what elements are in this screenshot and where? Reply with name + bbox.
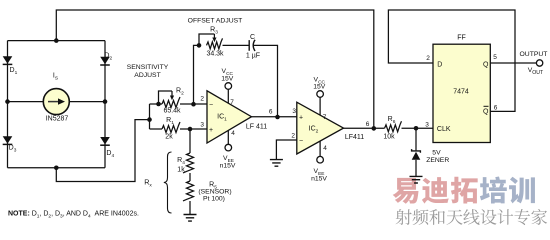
- svg-text:ADJUST: ADJUST: [134, 72, 160, 79]
- capacitor C 1uF: [249, 40, 255, 51]
- wire input vertical joining R2 and R1 rows: [149, 104, 151, 129]
- wire bridge bottom to input node: [56, 120, 149, 182]
- IC2 pin4 VEE: [319, 141, 321, 156]
- node IC1 out: [275, 115, 280, 120]
- node zener junction: [414, 126, 419, 131]
- node wiper tap: [156, 102, 161, 107]
- svg-text:65.4k: 65.4k: [163, 108, 181, 115]
- R2 potentiometer wiper: [159, 91, 173, 104]
- node bridge top: [54, 38, 59, 43]
- ground below zener: [410, 176, 423, 183]
- current source IS circle: [43, 89, 69, 115]
- watermark small text 射频和天线设计专家: [396, 209, 412, 225]
- svg-text:1k: 1k: [177, 167, 185, 174]
- diode D3: [3, 136, 13, 144]
- svg-text:+: +: [209, 127, 213, 134]
- diode D4: [100, 137, 110, 145]
- svg-text:Pt 100): Pt 100): [203, 196, 225, 203]
- svg-text:SENSITIVITY: SENSITIVITY: [127, 64, 169, 71]
- svg-text:3: 3: [292, 108, 296, 115]
- wire IC2 output row to FF CLK: [344, 127, 385, 129]
- output terminal circle: [536, 60, 542, 66]
- IC1 pin4 VEE: [227, 130, 229, 144]
- svg-text:n15V: n15V: [311, 176, 327, 183]
- svg-text:FF: FF: [457, 34, 466, 41]
- svg-text:D: D: [437, 62, 442, 69]
- svg-text:34.3k: 34.3k: [206, 51, 224, 58]
- diode D2: [100, 57, 110, 65]
- svg-text:5: 5: [493, 54, 497, 61]
- watermark big text 易迪拓培训: [393, 178, 419, 204]
- svg-text:+: +: [299, 114, 303, 121]
- node offset row left: [197, 43, 202, 48]
- svg-text:(SENSOR): (SENSOR): [198, 189, 231, 196]
- node pin3/R4: [188, 127, 193, 132]
- resistors R4 R5 sensor chain: [189, 129, 191, 153]
- zener diode 5V: [415, 128, 417, 150]
- ground below R5: [184, 215, 197, 222]
- node bridge bottom: [54, 166, 59, 171]
- R3 potentiometer wiper: [199, 34, 214, 45]
- svg-text:3: 3: [425, 121, 429, 128]
- svg-text:C: C: [250, 34, 255, 41]
- svg-text:IN5287: IN5287: [46, 116, 69, 123]
- diode D1: [3, 56, 13, 64]
- IC2 pin7 VCC: [319, 97, 321, 115]
- svg-text:OUTPUT: OUTPUT: [520, 51, 548, 58]
- svg-text:6: 6: [366, 121, 370, 128]
- svg-text:2k: 2k: [165, 134, 173, 141]
- node input: [147, 117, 152, 122]
- resistor R1 2k row (pin 3): [150, 128, 163, 130]
- svg-text:5V: 5V: [432, 150, 441, 157]
- op-amp IC1 LF411: [207, 91, 252, 143]
- resistor R2 65.4k row (pin 2): [150, 103, 163, 105]
- node top-rail junction: [372, 126, 377, 131]
- svg-text:15V: 15V: [313, 84, 326, 91]
- node bridge mid-left: [5, 99, 10, 104]
- svg-text:−: −: [209, 102, 213, 109]
- current source arrow: [48, 101, 59, 103]
- svg-text:7: 7: [323, 114, 327, 121]
- IC2 pin2 ground wire: [276, 140, 296, 160]
- svg-text:Q: Q: [483, 62, 489, 69]
- svg-text:CLK: CLK: [437, 126, 451, 133]
- node pin2/feedback: [191, 102, 196, 107]
- svg-text:3: 3: [200, 121, 204, 128]
- feedback vertical pin2 to offset row: [194, 45, 200, 104]
- ground IC2 pin2: [270, 160, 283, 167]
- svg-text:4: 4: [231, 130, 235, 137]
- wire top rail from bridge to IC2 output node: [56, 10, 374, 128]
- svg-text:4: 4: [323, 145, 327, 152]
- svg-text:7: 7: [230, 99, 234, 106]
- svg-text:10k: 10k: [383, 133, 395, 140]
- wire bridge rectangle: [8, 41, 106, 168]
- IC1 pin7 VCC: [227, 89, 229, 103]
- wire Q to output terminal: [490, 62, 536, 64]
- svg-text:Q: Q: [483, 109, 489, 116]
- svg-text:LF411: LF411: [345, 134, 364, 141]
- svg-text:15V: 15V: [221, 76, 234, 83]
- flip-flop 7474 box: [433, 44, 490, 142]
- svg-text:6: 6: [494, 104, 498, 111]
- wire IC1 output to IC2: [252, 116, 297, 118]
- svg-text:LF 411: LF 411: [246, 124, 267, 131]
- svg-text:−: −: [299, 138, 303, 145]
- svg-text:7474: 7474: [453, 89, 469, 96]
- resistor R3 34.3k (offset pot): [207, 38, 223, 49]
- svg-text:n15V: n15V: [220, 163, 236, 170]
- svg-text:ZENER: ZENER: [426, 157, 449, 164]
- svg-text:6: 6: [269, 108, 273, 115]
- svg-text:1 µF: 1 µF: [246, 53, 260, 60]
- wire FF feedback Qbar to D: [388, 10, 515, 111]
- op-amp IC2 LF411: [297, 102, 344, 154]
- svg-text:2: 2: [426, 55, 430, 62]
- svg-text:2: 2: [291, 132, 295, 139]
- node bridge mid-right: [103, 99, 108, 104]
- svg-text:2: 2: [200, 95, 204, 102]
- svg-text:OFFSET ADJUST: OFFSET ADJUST: [188, 18, 243, 25]
- brace Rx: [164, 152, 172, 213]
